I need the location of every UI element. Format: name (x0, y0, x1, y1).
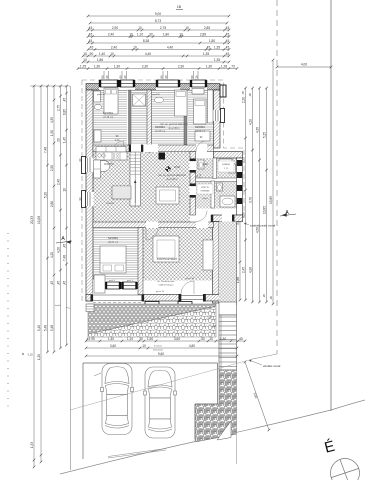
svg-text:,45: ,45 (225, 52, 230, 56)
svg-text:4,35: 4,35 (256, 127, 260, 133)
svg-text:1,10: 1,10 (127, 337, 133, 341)
svg-text:1,30: 1,30 (206, 65, 212, 69)
svg-text:30: 30 (195, 75, 199, 79)
svg-text:1,93: 1,93 (30, 442, 34, 448)
svg-text:4,40: 4,40 (145, 52, 151, 56)
svg-text:át +2,35 m: át +2,35 m (169, 127, 180, 130)
svg-text:2,10: 2,10 (115, 140, 120, 142)
svg-text:hídlított kőlapra: hídlított kőlapra (159, 284, 175, 287)
svg-text:1,40: 1,40 (99, 52, 105, 56)
svg-text:4,40: 4,40 (167, 46, 173, 50)
svg-text:épület: épület (55, 304, 61, 307)
svg-text:VIZETTE: VIZETTE (201, 187, 210, 189)
svg-text:2,85: 2,85 (200, 33, 206, 37)
svg-text:2,75: 2,75 (57, 105, 61, 111)
svg-text:15,85: 15,85 (269, 196, 273, 204)
svg-text:1,35: 1,35 (214, 46, 220, 50)
svg-text:min. ép. gerincél alatti szint: min. ép. gerincél alatti szint (160, 123, 188, 126)
svg-text:gard. 0: gard. 0 (127, 280, 134, 282)
svg-text:1,30: 1,30 (94, 65, 100, 69)
svg-text:1,86: 1,86 (97, 58, 103, 62)
svg-text:SZOBA: SZOBA (103, 111, 113, 115)
svg-text:3,70: 3,70 (249, 197, 253, 203)
svg-text:gard. 90: gard. 90 (97, 93, 106, 96)
svg-text:30: 30 (105, 75, 109, 79)
svg-text:,45: ,45 (225, 26, 230, 30)
svg-text:2,90: 2,90 (112, 26, 118, 30)
svg-text:2,40: 2,40 (57, 179, 61, 185)
svg-text:5,25: 5,25 (263, 132, 267, 138)
svg-text:2,30: 2,30 (178, 65, 184, 69)
svg-text:10: 10 (83, 58, 87, 62)
svg-text:10: 10 (63, 188, 67, 192)
svg-text:1,20: 1,20 (37, 354, 41, 360)
svg-text:1,35: 1,35 (214, 58, 220, 62)
svg-text:SZOBA: SZOBA (195, 125, 205, 129)
svg-text:tér: Pendela placc: tér: Pendela placc (157, 280, 175, 283)
svg-text:2,20: 2,20 (242, 97, 246, 103)
svg-text:8,73: 8,73 (155, 19, 161, 23)
svg-text:3,60: 3,60 (174, 337, 180, 341)
svg-text:1,25: 1,25 (80, 65, 86, 69)
svg-text:7,48: 7,48 (44, 147, 48, 153)
svg-text:gard. 0: gard. 0 (109, 280, 116, 282)
svg-text:19,08: 19,08 (37, 216, 41, 224)
svg-text:4,50: 4,50 (256, 227, 260, 233)
svg-text:1,80: 1,80 (163, 33, 169, 37)
svg-text:gerinc 90: gerinc 90 (156, 291, 165, 293)
svg-text:2,50: 2,50 (50, 165, 54, 171)
svg-text:1,80: 1,80 (209, 39, 215, 43)
svg-text:,45: ,45 (86, 337, 91, 341)
svg-text:30: 30 (123, 75, 127, 79)
svg-text:4,90: 4,90 (249, 267, 253, 273)
svg-text:,45: ,45 (225, 33, 230, 37)
svg-text:2,85: 2,85 (204, 26, 210, 30)
svg-text:,45: ,45 (206, 46, 211, 50)
svg-text:5,48: 5,48 (50, 325, 54, 331)
svg-text:8,38: 8,38 (143, 39, 149, 43)
svg-text:10: 10 (185, 26, 189, 30)
svg-text:10: 10 (129, 33, 133, 37)
svg-text:-0,02: -0,02 (202, 163, 208, 166)
svg-text:90: 90 (119, 75, 123, 79)
svg-text:4,00: 4,00 (301, 63, 307, 67)
svg-text:5,40: 5,40 (37, 325, 41, 331)
svg-text:,45: ,45 (63, 244, 67, 249)
svg-text:,45: ,45 (63, 281, 67, 286)
svg-text:PIHENŐ: PIHENŐ (106, 202, 115, 205)
svg-text:gerinc 90: gerinc 90 (186, 278, 195, 280)
svg-text:1,50: 1,50 (50, 130, 54, 136)
svg-text:KONYHA: KONYHA (104, 163, 114, 166)
svg-text:SZÁRAZ: SZÁRAZ (222, 163, 231, 166)
svg-text:10: 10 (110, 52, 114, 56)
svg-text:KONYHA-ÉTKEZŐ: KONYHA-ÉTKEZŐ (157, 258, 178, 261)
svg-text:2,45: 2,45 (242, 267, 246, 273)
svg-text:,45: ,45 (241, 91, 245, 95)
svg-text:4,35: 4,35 (50, 117, 54, 123)
svg-text:50: 50 (201, 337, 205, 341)
svg-text:3,60: 3,60 (110, 344, 116, 348)
svg-text:90: 90 (190, 75, 194, 79)
svg-text:10: 10 (133, 46, 137, 50)
svg-text:4,20: 4,20 (249, 119, 253, 125)
svg-text:,30: ,30 (269, 296, 273, 300)
svg-text:45: 45 (239, 337, 243, 341)
svg-text:10: 10 (209, 337, 213, 341)
svg-text:1,28: 1,28 (221, 65, 227, 69)
svg-text:6,85: 6,85 (63, 109, 67, 115)
svg-text:1,40: 1,40 (108, 337, 114, 341)
svg-text:szabályozási vonal: szabályozási vonal (250, 224, 276, 228)
svg-text:térburkolat: térburkolat (153, 349, 163, 352)
svg-text:20: 20 (57, 138, 61, 142)
svg-text:9,60: 9,60 (158, 352, 164, 356)
svg-text:gard.90: gard.90 (152, 93, 160, 96)
svg-text:(11,95 m²): (11,95 m²) (155, 130, 166, 133)
svg-text:TEREMBE: TEREMBE (200, 191, 210, 193)
svg-text:,30: ,30 (248, 93, 252, 97)
svg-text:öltöző: öltöző (202, 197, 208, 200)
svg-text:(16,62 m²): (16,62 m²) (108, 241, 119, 244)
svg-text:2,80: 2,80 (50, 201, 54, 207)
svg-text:át +0,30 m: át +0,30 m (167, 178, 178, 181)
svg-text:1,30: 1,30 (114, 65, 120, 69)
svg-text:±0,00: ±0,00 (174, 166, 181, 169)
svg-text:1,35: 1,35 (203, 52, 209, 56)
svg-text:,45: ,45 (88, 26, 93, 30)
svg-text:1B: 1B (177, 5, 182, 9)
svg-text:,20: ,20 (262, 294, 266, 298)
svg-text:1,45: 1,45 (63, 137, 67, 143)
svg-text:eltolási vonal: eltolási vonal (263, 364, 281, 368)
svg-text:,90: ,90 (89, 52, 94, 56)
svg-text:10: 10 (138, 26, 142, 30)
svg-text:7,48: 7,48 (63, 255, 67, 261)
svg-text:2,75: 2,75 (160, 26, 166, 30)
svg-text:2,40: 2,40 (111, 46, 117, 50)
svg-text:15: 15 (83, 52, 87, 56)
svg-text:90: 90 (91, 337, 95, 341)
svg-text:73: 73 (231, 65, 235, 69)
svg-text:9,00: 9,00 (155, 12, 161, 16)
svg-text:30: 30 (164, 75, 168, 79)
svg-text:4,20: 4,20 (57, 247, 61, 253)
svg-text:1,50: 1,50 (147, 337, 153, 341)
svg-text:min. ép. gerincél alatti szint: min. ép. gerincél alatti szint (158, 174, 186, 177)
svg-text:,30: ,30 (148, 33, 153, 37)
svg-text:,45: ,45 (63, 98, 67, 103)
svg-text:1,10: 1,10 (137, 33, 143, 37)
svg-text:10: 10 (142, 344, 146, 348)
svg-text:,45: ,45 (57, 281, 61, 286)
svg-text:10: 10 (179, 33, 183, 37)
svg-text:2,40: 2,40 (108, 33, 114, 37)
svg-text:2,30: 2,30 (142, 65, 148, 69)
svg-text:,45: ,45 (225, 46, 230, 50)
svg-text:(17,48 m²): (17,48 m²) (103, 116, 114, 119)
svg-text:-1,20: -1,20 (27, 354, 33, 357)
svg-text:10,85: 10,85 (263, 206, 267, 214)
svg-text:1,30: 1,30 (220, 337, 226, 341)
svg-text:4,80: 4,80 (189, 344, 195, 348)
svg-text:20,33: 20,33 (30, 216, 34, 224)
svg-text:,45: ,45 (50, 281, 54, 286)
svg-text:5,48: 5,48 (44, 325, 48, 331)
svg-text:90: 90 (160, 75, 164, 79)
svg-text:30: 30 (139, 337, 143, 341)
svg-text:,45: ,45 (88, 39, 93, 43)
svg-text:4,20: 4,20 (50, 252, 54, 258)
svg-text:SZOBA: SZOBA (108, 236, 118, 240)
svg-text:90: 90 (101, 75, 105, 79)
svg-text:5,20: 5,20 (44, 192, 48, 198)
svg-text:(13,65 m²): (13,65 m²) (195, 130, 206, 133)
svg-text:,45: ,45 (88, 33, 93, 37)
svg-text:Kisváros: Kisváros (154, 344, 162, 347)
svg-text:,45: ,45 (225, 39, 230, 43)
svg-text:,45: ,45 (89, 46, 94, 50)
